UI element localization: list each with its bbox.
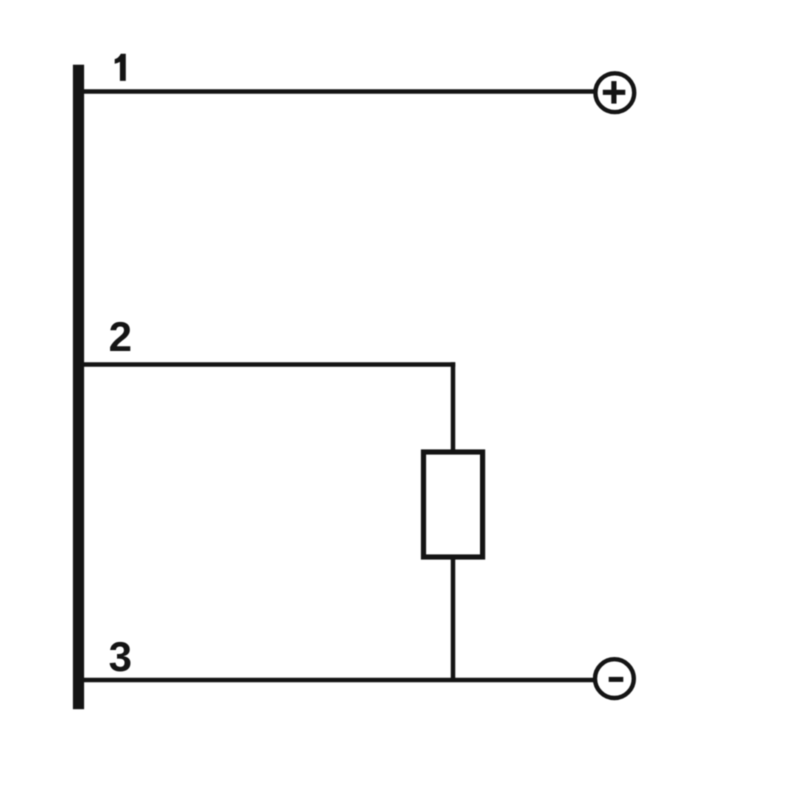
- svg-text:3: 3: [109, 633, 132, 680]
- svg-text:2: 2: [109, 313, 132, 360]
- terminal - (negative) circle: [595, 659, 634, 698]
- bus bar (terminal strip): [73, 65, 84, 710]
- plus sign: [603, 81, 626, 104]
- resistor R1 body: [424, 452, 483, 557]
- wire from resistor bottom to wire 3: [451, 557, 456, 680]
- minus sign: [609, 677, 624, 682]
- wire 2 horizontal: [80, 362, 455, 367]
- node 1 label: [115, 54, 126, 81]
- wire 2 vertical drop to resistor: [451, 362, 456, 452]
- wire 1: [80, 89, 595, 94]
- terminal + (positive) circle: [595, 73, 634, 112]
- wire 3: [80, 678, 594, 682]
